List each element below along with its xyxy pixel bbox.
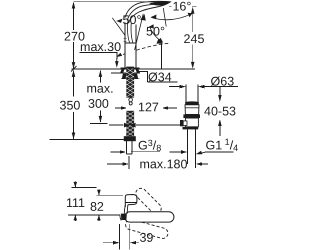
drain body bottom band — [183, 127, 199, 130]
245 top arrowhead — [191, 7, 195, 14]
oblique tick at counter — [71, 66, 77, 72]
50deg right leg — [135, 14, 144, 50]
lever tip cap — [150, 1, 171, 5]
svg-text:G3/8: G3/8 — [138, 138, 161, 153]
16deg arc left arrowhead — [151, 15, 157, 20]
svg-text:300: 300 — [88, 97, 109, 111]
dimension 127 right arrow — [165, 107, 178, 109]
dashed lever position down — [126, 219, 168, 238]
245 bottom arrowhead — [191, 62, 195, 69]
Ø63 underline — [202, 86, 238, 88]
max300 top arrowhead — [99, 70, 103, 77]
swivel projection line — [161, 43, 163, 69]
hose end fitting — [129, 98, 133, 102]
line A top of lever — [72, 186, 97, 188]
G1 1/4 leader arrow — [199, 152, 205, 154]
svg-text:127: 127 — [138, 100, 159, 114]
svg-text:G1 1/4: G1 1/4 — [205, 137, 238, 153]
svg-text:Ø63: Ø63 — [211, 75, 235, 89]
drain pipe top arrows — [169, 86, 182, 88]
350 bottom reference line — [50, 138, 128, 140]
G3/8 nut — [124, 136, 136, 141]
270 top arrowhead — [72, 2, 76, 9]
drain flange body — [185, 105, 199, 115]
dim 39 ext lines — [120, 224, 130, 250]
drain nut — [183, 114, 200, 118]
dimension 127 left arrow — [115, 107, 124, 109]
max.30 arrowhead — [115, 61, 119, 68]
dim 40-53 lower — [219, 126, 221, 137]
50deg lower arc bottom arrowhead — [158, 38, 164, 43]
dim 40-53 upper — [219, 87, 221, 96]
counter bottom line — [111, 72, 140, 74]
max300 bottom arrowhead — [99, 116, 103, 123]
svg-text:Ø34: Ø34 — [148, 70, 172, 84]
dimension 270 line — [73, 3, 75, 68]
16 degree reference line — [169, 5, 197, 7]
lever body (bottom view) — [125, 195, 137, 208]
svg-text:max.: max. — [87, 82, 114, 96]
G3/8 threaded end — [127, 141, 132, 154]
top reference line — [74, 1, 169, 3]
body joint ticks — [124, 39, 127, 41]
svg-text:max.30: max.30 — [80, 40, 121, 54]
drain flange rim — [185, 101, 199, 104]
max180 left ext line — [128, 156, 130, 169]
svg-text:350: 350 — [60, 98, 81, 112]
G1 1/4 underline — [205, 151, 234, 153]
drain tailpipe — [188, 129, 196, 168]
braided shank through deck — [126, 67, 134, 98]
50deg right arrowhead — [140, 14, 146, 21]
drain axis line — [109, 124, 186, 126]
nut under line — [121, 78, 139, 80]
max180 right arrow — [202, 163, 208, 165]
line B — [96, 194, 123, 196]
lever rest-position lines — [128, 22, 133, 43]
dim 39 arrows — [103, 242, 114, 244]
mounting nut below counter — [122, 74, 127, 79]
50deg lower arc — [150, 27, 162, 42]
svg-text:50°: 50° — [146, 24, 165, 38]
16deg slant line from tip — [163, 8, 166, 27]
350 top arrowhead — [72, 70, 76, 77]
svg-text:111: 111 — [66, 196, 85, 210]
max.30 underline and leader — [79, 52, 117, 59]
thread right arrow — [170, 151, 182, 153]
dimension 350 line — [73, 71, 75, 140]
pivot junction dark — [121, 214, 127, 220]
counter top line — [72, 68, 195, 70]
350 bottom arrowhead — [72, 133, 76, 140]
spout body (bottom view) — [125, 212, 174, 222]
Ø34 leader bracket — [139, 71, 148, 82]
svg-text:max.180: max.180 — [139, 157, 187, 171]
dashed lever position up — [136, 188, 161, 213]
svg-text:82: 82 — [90, 200, 104, 214]
270 bottom arrowhead — [72, 62, 76, 69]
swivel arc left arrowhead — [116, 53, 122, 57]
line C — [68, 214, 120, 216]
lever neck — [124, 205, 128, 214]
axis diamond arrows — [124, 123, 136, 128]
braided hose lower — [126, 111, 134, 136]
dim 111 — [74, 182, 76, 222]
dim 82 — [98, 190, 100, 222]
max180 left arrow — [107, 163, 123, 165]
svg-text:39: 39 — [139, 231, 153, 245]
50deg left arrowhead — [116, 19, 122, 23]
svg-text:245: 245 — [184, 32, 205, 46]
drain vertical pipe — [186, 84, 198, 102]
Ø34 underline — [147, 81, 177, 83]
svg-text:16°: 16° — [172, 0, 191, 14]
dimension max300 line — [99, 71, 101, 122]
svg-text:40-53: 40-53 — [204, 104, 236, 118]
escutcheon base plate — [120, 67, 139, 69]
50deg lower arc top arrowhead — [149, 24, 154, 29]
drain lower body — [185, 118, 198, 127]
G3/8 leader arrow — [111, 151, 120, 153]
max300 terminator line — [90, 122, 107, 124]
spout swivel dashed arc — [118, 43, 169, 56]
G3/8 underline — [131, 151, 160, 153]
16deg arc right arrowhead — [188, 13, 193, 17]
swivel arrow — [157, 39, 163, 43]
16deg arc — [152, 14, 192, 20]
lever inner line — [127, 4, 160, 20]
drain outlet stub — [180, 120, 183, 126]
lever handle (side swoosh) — [125, 1, 171, 23]
50deg left leg — [112, 18, 125, 35]
svg-text:50°: 50° — [123, 13, 142, 27]
faucet body — [125, 23, 136, 69]
dimension 245 line — [192, 7, 194, 67]
